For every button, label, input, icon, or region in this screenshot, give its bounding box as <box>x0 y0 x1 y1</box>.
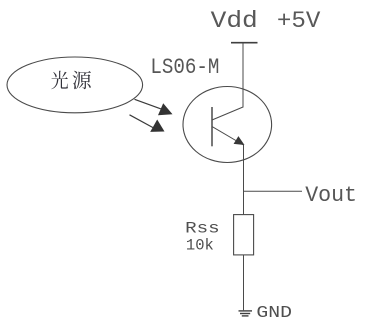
svg-text:Vdd: Vdd <box>211 8 258 34</box>
phototransistor emitter arrowhead <box>234 136 245 145</box>
svg-text:GND: GND <box>256 303 292 322</box>
resistor Rss body <box>234 215 254 255</box>
ground symbol <box>239 311 253 316</box>
svg-text:LS06-M: LS06-M <box>150 55 219 80</box>
svg-text:10k: 10k <box>186 237 214 255</box>
phototransistor U1 body circle <box>183 87 272 163</box>
light source ellipse <box>7 57 143 113</box>
label Vdd +5V <box>211 8 321 34</box>
light arrow 1 head <box>158 103 173 115</box>
svg-text:+5V: +5V <box>277 8 321 34</box>
svg-text:Rss: Rss <box>185 219 220 237</box>
label 光源 glyph 光 <box>51 71 68 90</box>
phototransistor base bar <box>211 107 213 146</box>
wire resistor to ground <box>243 255 245 310</box>
light arrow 2 shaft <box>130 115 154 128</box>
phototransistor collector lead <box>212 107 243 120</box>
phototransistor emitter lead <box>212 127 244 146</box>
wire emitter to resistor <box>243 145 245 215</box>
light arrow 1 shaft <box>135 99 162 109</box>
svg-text:Vout: Vout <box>305 183 357 208</box>
wire Vdd bar to collector <box>242 43 244 108</box>
label 光源 glyph 源 <box>73 71 91 90</box>
power symbol Vdd bar <box>231 42 258 44</box>
wire Vout tap <box>244 190 303 192</box>
light arrow 2 head <box>150 120 164 132</box>
